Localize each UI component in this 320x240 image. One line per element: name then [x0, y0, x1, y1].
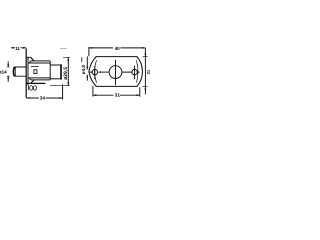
- dimension 31 left extension line: [92, 86, 94, 97]
- button cap face: [13, 67, 16, 76]
- svg-text:11: 11: [15, 46, 20, 51]
- hole left: [92, 69, 97, 74]
- top flange tab: [26, 56, 30, 58]
- left dia arrows: [7, 64, 9, 79]
- body top inner edge: [28, 62, 50, 64]
- plate inner arc left: [95, 60, 97, 82]
- terminal circles: [30, 86, 33, 91]
- dimension 34 right extension line: [62, 84, 64, 99]
- body bottom outer edge: [31, 79, 50, 81]
- left dia dimension line lower: [7, 76, 9, 82]
- rear box top: [50, 64, 62, 66]
- rear box bottom: [50, 78, 62, 80]
- svg-text:21: 21: [146, 69, 150, 74]
- plate height arrows: [145, 53, 147, 90]
- left dia dimension line upper: [7, 62, 9, 68]
- hole center crosshair: [115, 60, 117, 85]
- left dia ticks: [7, 67, 10, 76]
- rear box right edge: [60, 64, 62, 79]
- bottom step between edges: [29, 78, 31, 80]
- plate height ticks: [143, 57, 148, 87]
- hole right: [132, 69, 137, 74]
- svg-text:31: 31: [115, 93, 121, 98]
- dimension 40 line: [89, 47, 145, 49]
- hole dia leader mark: [81, 57, 83, 62]
- svg-text:ø29,5: ø29,5: [63, 67, 69, 80]
- dimension 31 line: [93, 94, 140, 96]
- dimension 34 arrows: [26, 97, 62, 99]
- panel: [25, 48, 27, 97]
- faint mark: [60, 48, 67, 50]
- plate inner arc right: [136, 60, 138, 82]
- button cap inner edge: [15, 67, 17, 76]
- body inner detail square: [34, 70, 37, 74]
- body dia dimension line: [67, 57, 69, 85]
- svg-text:ø14: ø14: [0, 69, 7, 74]
- plunger hidden line: [31, 66, 39, 68]
- bottom flange tab: [26, 82, 45, 84]
- body dia dimension bottom tick: [50, 85, 70, 87]
- top step between edges: [29, 61, 31, 63]
- hole left crosshair: [89, 66, 94, 80]
- hole right crosshair: [134, 66, 136, 80]
- hole dia arrows: [86, 67, 88, 78]
- dimension 34 line: [26, 97, 62, 99]
- body dia dimension arrows: [67, 57, 69, 85]
- dimension 31 right extension line: [139, 87, 141, 96]
- plate outline: [89, 57, 143, 87]
- top clip diagonal: [31, 57, 34, 61]
- body front face: [27, 57, 29, 85]
- dimension 11 arrows: [11, 47, 26, 49]
- body bottom inner edge: [28, 77, 50, 79]
- dimension 40 arrows: [89, 47, 145, 49]
- centerline arrow between left holes: [101, 71, 109, 73]
- hole dia dimension line lower: [86, 75, 88, 81]
- body dia dimension top tick: [63, 56, 70, 58]
- hole dia dimension line upper: [86, 56, 88, 69]
- svg-text:34: 34: [40, 96, 46, 101]
- terminal circles tick: [28, 85, 30, 90]
- svg-text:40: 40: [115, 46, 121, 51]
- hole center: [109, 66, 122, 79]
- dimension 31 arrows: [93, 94, 140, 96]
- svg-text:ø4,8: ø4,8: [81, 65, 86, 75]
- dimension 11 line: [11, 47, 26, 49]
- bottom clip diagonal: [31, 80, 34, 84]
- dimension 40 left extension line: [88, 47, 90, 56]
- centerline between right holes: [122, 71, 140, 73]
- plate height dimension line: [144, 48, 146, 95]
- button: [14, 67, 26, 76]
- body top outer edge: [31, 60, 50, 62]
- body right edge: [49, 61, 51, 80]
